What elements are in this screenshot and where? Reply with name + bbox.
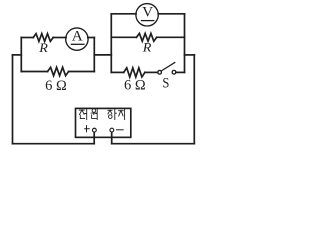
- left block left edge wire: [20, 38, 22, 72]
- wire middle connector between blocks: [94, 54, 111, 56]
- switch S lever arm: [161, 62, 175, 71]
- resistor R2 (right R) zigzag: [137, 33, 157, 41]
- hangul glyph jeon: eo vowel: [85, 109, 87, 119]
- hangul glyph jeon: jieut legs: [80, 110, 85, 114]
- wire switch to right edge: [176, 71, 185, 73]
- wire right junction stub: [185, 54, 195, 56]
- wire bottom right: [112, 143, 195, 145]
- ammeter underline: [71, 43, 85, 45]
- wire voltmeter branch right: [158, 13, 184, 15]
- minus terminal circle: [110, 128, 114, 132]
- svg-text:R: R: [142, 41, 152, 55]
- ammeter U1 circle: [66, 28, 88, 50]
- left block right edge wire: [93, 38, 95, 72]
- wire top branch left segment: [21, 37, 33, 39]
- wire R2 branch left: [111, 36, 136, 38]
- wire bottom branch left segment: [21, 71, 47, 73]
- resistor R1 (left R) zigzag: [33, 34, 53, 42]
- wire resistor R1 to ammeter: [53, 37, 66, 39]
- hangul glyph jeon: nieun: [80, 115, 84, 118]
- wire left junction stub: [13, 54, 22, 56]
- hangul glyph chi: chieut legs: [119, 111, 123, 116]
- resistor 6-ohm left zigzag: [48, 67, 69, 75]
- wire bottom branch right segment: [69, 71, 95, 73]
- svg-text:S: S: [162, 76, 169, 92]
- hangul glyph won: u bar and stem: [91, 113, 96, 114]
- voltmeter U2 circle: [136, 4, 158, 26]
- wire ammeter to left-block right edge: [88, 37, 95, 39]
- svg-text:V: V: [142, 4, 153, 21]
- svg-text:6 Ω: 6 Ω: [45, 78, 67, 94]
- hangul glyph jang: jieut legs: [108, 110, 112, 114]
- hangul glyph jang: a vowel: [115, 109, 117, 119]
- wire minus-terminal drop: [111, 132, 113, 144]
- switch S right contact circle: [172, 70, 176, 74]
- svg-text:A: A: [72, 28, 83, 45]
- switch S pivot contact circle: [158, 70, 162, 74]
- plus terminal symbol: [84, 125, 90, 132]
- hangul glyph chi: chieut top tick: [120, 108, 122, 110]
- minus terminal symbol: [116, 129, 124, 131]
- voltmeter underline: [141, 20, 155, 22]
- svg-text:6 Ω: 6 Ω: [124, 78, 146, 94]
- plus terminal circle: [92, 128, 96, 132]
- wire R2 branch right: [157, 36, 185, 38]
- right block left edge wire: [110, 14, 112, 73]
- hangul glyph won: nieun: [92, 115, 97, 119]
- hangul glyph won: eo vowel: [96, 109, 97, 119]
- hangul glyph won: ieung circle: [92, 109, 96, 113]
- hangul glyph jang: ieung circle: [109, 115, 113, 119]
- wire resistor to switch: [145, 71, 158, 73]
- hangul glyph chi: chieut bar: [119, 110, 124, 112]
- wire bottom left: [13, 143, 95, 145]
- wire voltmeter branch left: [111, 13, 136, 15]
- right block right edge wire: [184, 14, 186, 73]
- wire outer left vertical: [12, 55, 14, 144]
- power supply box: [76, 108, 131, 137]
- wire outer right vertical: [193, 55, 195, 144]
- wire switch branch left: [111, 71, 123, 73]
- wire plus-terminal drop: [93, 132, 95, 143]
- hangul glyph chi: i vowel: [124, 109, 126, 120]
- hangul glyph jeon: jieut bar: [79, 109, 84, 111]
- svg-text:R: R: [38, 41, 48, 55]
- resistor 6-ohm right zigzag: [124, 68, 145, 77]
- hangul glyph jang: jieut bar: [108, 109, 112, 111]
